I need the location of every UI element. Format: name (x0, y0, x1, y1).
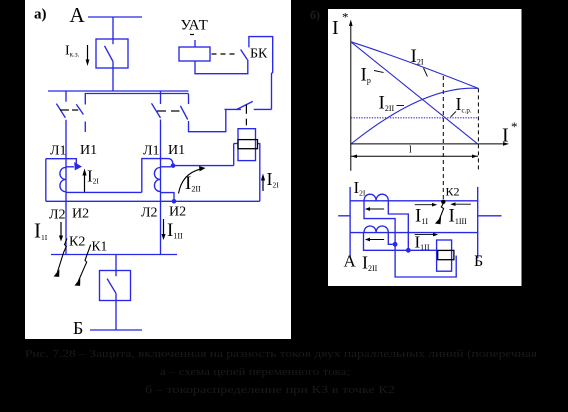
svg-text:К1: К1 (92, 239, 108, 254)
svg-text:БК: БК (250, 47, 268, 62)
svg-text:б – токораспределение при КЗ в: б – токораспределение при КЗ в точке К2 (145, 385, 395, 396)
svg-text:К2: К2 (69, 234, 85, 249)
svg-text:*: * (511, 119, 518, 134)
svg-text:а – схема цепей переменного то: а – схема цепей переменного тока; (160, 367, 350, 378)
svg-text:А: А (344, 251, 357, 270)
svg-text:Л1: Л1 (50, 144, 67, 159)
svg-text:б): б) (310, 8, 320, 22)
svg-text:l: l (409, 144, 412, 155)
svg-text:И2: И2 (72, 207, 89, 222)
svg-text:УАТ: УАТ (181, 18, 209, 34)
svg-text:Рис. 7.28 – Защита, включенная: Рис. 7.28 – Защита, включенная на разнос… (25, 349, 537, 360)
svg-text:И2: И2 (169, 205, 186, 220)
svg-text:Л1: Л1 (143, 144, 160, 159)
svg-text:Б: Б (474, 253, 483, 270)
svg-text:А: А (70, 3, 86, 27)
svg-text:К2: К2 (446, 184, 460, 198)
svg-text:I: I (502, 125, 509, 147)
svg-text:а): а) (34, 7, 47, 23)
svg-text:Б: Б (73, 318, 83, 338)
svg-text:И1: И1 (80, 143, 97, 158)
svg-text:Л2: Л2 (49, 208, 66, 223)
svg-text:I: I (332, 17, 339, 39)
svg-text:*: * (342, 10, 349, 25)
svg-text:И1: И1 (168, 143, 185, 158)
svg-text:Л2: Л2 (141, 206, 158, 221)
